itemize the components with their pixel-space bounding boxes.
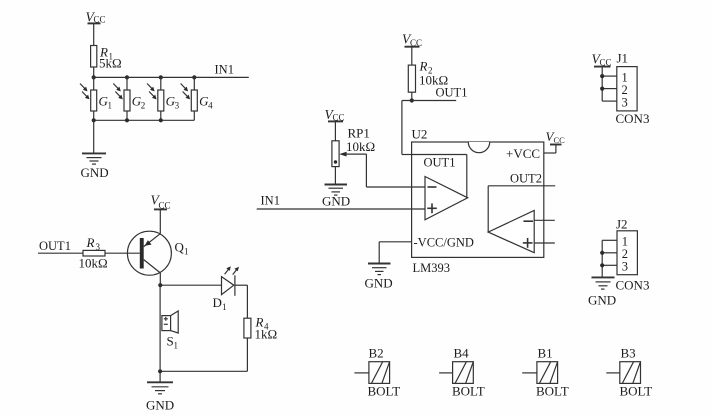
wire Q1 emitter to VCC	[159, 209, 161, 233]
op-amp U2A triangle	[425, 177, 468, 220]
wire bottom rail (speaker net)	[160, 370, 247, 372]
resistor R1	[91, 45, 122, 71]
photoresistor G3	[147, 77, 180, 120]
wire R4 to bottom rail	[246, 338, 248, 371]
wire U2B non-inverting input stub	[534, 242, 555, 244]
ground GND (speaker net)	[146, 371, 174, 412]
wire OUT2 pin	[488, 186, 555, 232]
resistor R4	[244, 315, 277, 342]
wire VCC to R2	[411, 47, 413, 65]
svg-text:BOLT: BOLT	[536, 384, 569, 399]
svg-text:3: 3	[622, 96, 628, 110]
svg-text:GND: GND	[322, 194, 350, 209]
node collector junction	[158, 283, 162, 287]
svg-text:CON3: CON3	[616, 278, 650, 293]
svg-text:1: 1	[184, 247, 189, 257]
svg-text:B2: B2	[369, 346, 384, 361]
bolt B2	[354, 346, 400, 399]
svg-text:OUT1: OUT1	[39, 239, 71, 253]
svg-text:5kΩ: 5kΩ	[99, 56, 122, 71]
ground GND (U2)	[365, 264, 393, 291]
LED D1	[213, 266, 240, 312]
svg-text:CC: CC	[554, 135, 566, 145]
connector J1	[600, 51, 649, 127]
svg-text:1: 1	[174, 341, 179, 351]
bolt B4	[439, 346, 485, 399]
node IN1 rail junction dots	[92, 75, 197, 79]
wire VCC to R1	[93, 23, 95, 45]
op-amp U2 body (LM393 box)	[412, 127, 544, 276]
ground GND (RP1)	[322, 167, 350, 209]
svg-text:OUT1: OUT1	[436, 86, 468, 100]
svg-text:J2: J2	[616, 217, 628, 232]
svg-text:BOLT: BOLT	[452, 384, 485, 399]
svg-text:BOLT: BOLT	[620, 384, 653, 399]
wire R2 bottom to junction	[411, 92, 413, 100]
wire IN1 rail	[94, 76, 249, 78]
connector J2	[600, 217, 649, 293]
svg-text:OUT1: OUT1	[424, 156, 456, 170]
photoresistor G4	[181, 77, 214, 120]
svg-text:IN1: IN1	[215, 63, 234, 77]
wire RP1 wiper to comparator inverting input	[339, 152, 425, 187]
svg-text:+VCC: +VCC	[506, 146, 540, 161]
wire OUT1 stub	[402, 100, 456, 102]
svg-text:R: R	[86, 235, 95, 250]
svg-text:-VCC/GND: -VCC/GND	[414, 236, 474, 250]
node bottom rail junction dots	[92, 118, 163, 122]
svg-text:LM393: LM393	[413, 261, 451, 275]
wire IN1 (thick) to comparator non-inverting input	[257, 208, 425, 210]
svg-text:1: 1	[222, 302, 227, 312]
transistor Q1	[127, 231, 188, 275]
power VCC (above RP1)	[325, 107, 345, 123]
wire bottom rail of photoresistors	[94, 119, 195, 121]
svg-text:3: 3	[96, 242, 101, 252]
ground GND (photoresistor net)	[81, 153, 109, 180]
svg-text:3: 3	[622, 260, 628, 274]
svg-text:Q: Q	[175, 240, 185, 255]
svg-text:U2: U2	[412, 127, 428, 142]
photoresistor G2	[113, 77, 145, 120]
svg-text:1: 1	[108, 101, 113, 111]
wire R3 to Q1 base	[105, 252, 140, 254]
svg-text:BOLT: BOLT	[368, 384, 401, 399]
pin -VCC/GND wire	[379, 242, 411, 264]
wire collector to LED D1	[160, 284, 221, 286]
svg-text:B1: B1	[538, 346, 553, 361]
svg-text:IN1: IN1	[261, 194, 280, 208]
svg-text:J1: J1	[617, 51, 629, 66]
resistor R2	[408, 59, 448, 93]
op-amp U2B triangle	[488, 210, 534, 252]
svg-text:1kΩ: 1kΩ	[255, 327, 278, 342]
svg-text:CON3: CON3	[616, 111, 650, 126]
wire R1 bottom to node	[93, 67, 95, 77]
bolt B1	[522, 346, 569, 399]
photoresistor G1	[80, 77, 112, 120]
svg-text:2: 2	[141, 101, 146, 111]
svg-text:10kΩ: 10kΩ	[79, 256, 108, 271]
svg-text:10kΩ: 10kΩ	[346, 139, 375, 154]
svg-text:GND: GND	[81, 165, 109, 180]
power VCC (above R2)	[402, 32, 422, 48]
node bottom junction	[158, 369, 162, 373]
wire OUT1 pin inside U2	[412, 155, 467, 198]
wire OUT1 down to U2 pin	[402, 101, 412, 155]
node OUT1 junction dot	[410, 98, 414, 102]
resistor R3	[79, 235, 108, 271]
svg-text:GND: GND	[146, 398, 174, 413]
svg-text:3: 3	[175, 101, 180, 111]
wire collector node down to speaker/GND	[159, 285, 161, 371]
power VCC net label (top-left, above R1)	[86, 10, 106, 25]
ground GND (J2)	[588, 277, 616, 307]
svg-text:GND: GND	[365, 276, 393, 291]
bolt B3	[606, 346, 652, 399]
svg-text:GND: GND	[588, 293, 616, 308]
wire Q1 collector down	[159, 273, 161, 285]
wire OUT1 to R3	[38, 252, 83, 254]
power VCC (above Q1)	[151, 193, 171, 211]
speaker S1	[162, 311, 178, 351]
svg-text:B3: B3	[621, 346, 636, 361]
wire D1 cathode to R4	[235, 285, 248, 318]
potentiometer RP1	[332, 121, 375, 166]
svg-text:4: 4	[208, 101, 213, 111]
wire to GND (photoresistor net)	[93, 120, 95, 153]
svg-text:R: R	[419, 59, 428, 74]
power VCC (U2 +VCC pin)	[544, 129, 565, 153]
power VCC (J1)	[592, 52, 612, 68]
svg-text:B4: B4	[454, 346, 470, 361]
wire U2B inverting input stub	[534, 219, 555, 221]
svg-text:OUT2: OUT2	[510, 172, 542, 186]
svg-text:D: D	[213, 295, 222, 310]
